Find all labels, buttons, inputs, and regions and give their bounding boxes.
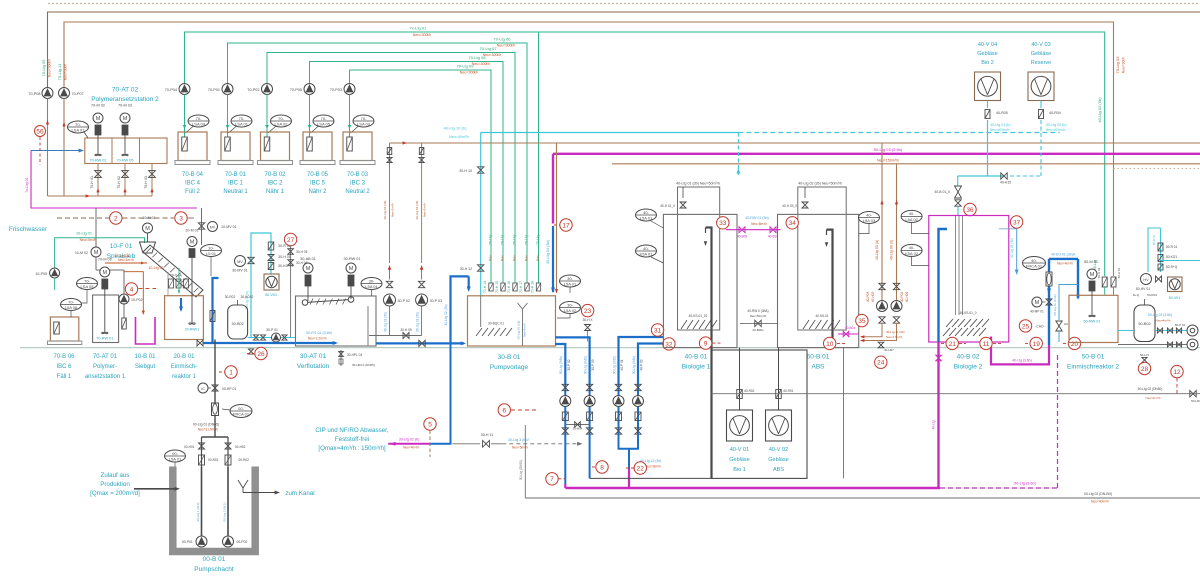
tank 50-B 01 Einmischreaktor 2 [1069,295,1118,342]
svg-text:Neu=30l/h: Neu=30l/h [1122,57,1126,73]
svg-text:FRCA 01: FRCA 01 [233,412,250,417]
svg-text:-CHO-: -CHO- [1035,325,1044,329]
drain valve and node 24 [878,342,884,348]
svg-text:[Qmax = 200m³/d]: [Qmax = 200m³/d] [90,490,140,497]
svg-text:50-Ltg 02 (3.6b): 50-Ltg 02 (3.6b) [1148,313,1172,317]
CIP distribution line gray [452,443,480,445]
svg-text:Neu: Neu [489,255,493,261]
influent line Zulauf [134,488,176,490]
svg-text:Gebläse: Gebläse [1031,51,1052,57]
svg-text:Pumpschacht: Pumpschacht [194,566,234,573]
svg-text:Neu=300l/h: Neu=300l/h [483,53,501,57]
orange wash line 1 [105,262,147,264]
instruments at 30-B 01 [560,275,581,287]
cyan dashed riser from 40-B 01 [737,133,739,176]
svg-text:Neu=400m³/h: Neu=400m³/h [990,128,1010,132]
air header to Biologie 2 [958,175,1004,177]
inner chamber hatch ABS [803,320,809,329]
svg-text:70-B 05: 70-B 05 [307,172,329,178]
svg-text:20-B 01: 20-B 01 [173,354,195,360]
frame line 70-Ltg upper [48,12,1200,88]
green cascade line 3 [267,53,515,284]
blue inlet arrow inside reactor [180,298,182,310]
svg-text:L5A 02: L5A 02 [905,217,918,222]
pump 70-P07 [59,88,70,99]
svg-text:12: 12 [1173,369,1181,376]
svg-text:Neu=300l/h: Neu=300l/h [413,33,431,37]
top frame dotted line [48,3,1200,5]
svg-text:70-H 02: 70-H 02 [117,176,121,189]
thin recirculation branch with valve stack [1059,285,1078,321]
cross connect between columns 1-2 [565,424,589,426]
submersible pump 00-P01 [196,536,207,547]
tank 30-B 01 Pumpvorlage [468,296,556,346]
svg-text:25: 25 [1022,323,1030,330]
svg-text:M: M [145,226,150,232]
svg-text:LSA 07: LSA 07 [72,128,86,133]
red arrows on ABS feed drops [880,200,883,204]
svg-text:30-P/L 01 (3.6b): 30-P/L 01 (3.6b) [306,331,332,335]
svg-text:Füll 2: Füll 2 [185,189,200,195]
pump column 40-P 02 [637,384,639,434]
instrument 70-LSA 04 [188,115,209,127]
pump 30-P 01 [272,333,281,342]
spargers inside Biologie 2 [955,216,957,315]
svg-text:40-R04: 40-R04 [1049,111,1061,115]
svg-text:50-B 01: 50-B 01 [1152,234,1156,245]
svg-text:40-Ltg: 40-Ltg [932,420,936,429]
node 56 [35,126,46,137]
downcomer air pipe ABS [827,230,833,348]
svg-text:70-: 70- [68,299,74,304]
svg-text:00-: 00- [238,406,244,411]
reactor outlet down to pit [214,340,216,404]
instrument 70-LSA 05 [77,278,98,290]
valve 30-H 12 [478,265,484,271]
air drop with control valves into Biologie 2 spargers [957,176,959,186]
node 12 with dashed drop [1171,365,1183,377]
tank 30-AT 01 Verflotation [296,296,377,346]
svg-text:Neu=9m³/h: Neu=9m³/h [523,323,527,337]
svg-text:00-HP 01: 00-HP 01 [222,387,236,391]
instrument 70-LSA 06 [61,299,82,311]
suction line into IBC [309,95,311,138]
screen support [167,272,169,296]
svg-text:Neu=300l/h: Neu=300l/h [497,44,515,48]
blower enclosure [712,350,808,478]
svg-text:7x-Ltg 01: 7x-Ltg 01 [25,177,29,193]
svg-text:70-P04: 70-P04 [165,88,177,92]
svg-text:40-Ltg (3.6b): 40-Ltg (3.6b) [1012,359,1031,363]
blue transfer Biologie2 to Einmischreaktor 2 [1049,258,1078,260]
collect header brown y=196 [48,195,153,197]
brown header y=143 [390,142,1200,144]
svg-text:70-Ltg 05: 70-Ltg 05 [41,59,46,77]
svg-text:Feststoff-frei: Feststoff-frei [335,436,369,443]
svg-text:M: M [1035,300,1040,306]
svg-text:40-B 01: 40-B 01 [685,354,708,361]
svg-text:40-H05: 40-H05 [871,292,875,303]
IBC tank 70-B 01 [221,132,250,161]
svg-text:10-M 01: 10-M 01 [142,216,155,220]
svg-text:40-B 02: 40-B 02 [957,354,980,361]
svg-text:30-KO 01: 30-KO 01 [278,264,293,268]
line pumps to collect header [47,99,49,197]
svg-text:40-R02: 40-R02 [744,389,755,393]
svg-text:70-P05: 70-P05 [290,88,302,92]
CIP magenta inlet line [388,443,430,445]
svg-text:reaktor 1: reaktor 1 [172,374,196,380]
svg-text:70-M 01: 70-M 01 [98,258,112,262]
svg-text:40-Ltg 03 (b): 40-Ltg 03 (b) [875,240,879,261]
svg-text:70-B 06: 70-B 06 [53,354,75,360]
svg-text:00-Ltg 02 (DN150): 00-Ltg 02 (DN150) [1084,492,1112,496]
bottom transfer line between chambers [740,322,778,324]
svg-text:10-P02: 10-P02 [131,298,143,302]
svg-text:Biologie 2: Biologie 2 [954,364,983,371]
svg-text:30-H X: 30-H X [583,318,594,322]
cyan line to flotation saturation [481,132,739,134]
svg-text:40-V 04: 40-V 04 [978,42,997,48]
svg-text:30-P 03: 30-P 03 [430,299,443,303]
feed header column 3 into Biologie 1 [619,337,664,384]
svg-text:30-Ltg 02 (b): 30-Ltg 02 (b) [399,438,420,442]
IBC tank 70-B 03 [343,132,372,161]
column 2 discharge to gray line [589,434,591,478]
riser manifold split [202,436,229,438]
svg-text:70-Ltg: 70-Ltg [525,235,529,245]
svg-text:30-Ltg 04 (3b): 30-Ltg 04 (3b) [383,201,387,220]
pump pit walls [173,467,255,552]
valve and motor 40-MP 01 [1046,299,1052,305]
svg-text:Neu=50m³/h: Neu=50m³/h [750,314,767,318]
svg-text:1: 1 [229,369,233,376]
suction line into IBC [266,95,268,138]
suction line into IBC [184,95,186,138]
svg-text:50-R 01: 50-R 01 [1166,245,1178,249]
svg-text:00-H01: 00-H01 [184,445,195,449]
IBC tank 70-B 05 [303,132,332,161]
instrument 10-L5 01 [201,245,222,257]
pressure vessel 30-B 02 [228,305,248,339]
svg-text:00-R02: 00-R02 [239,458,250,462]
pump column 30-P 02 [564,384,566,434]
valve HV 50-HV 01 [1141,274,1152,285]
fitting 30-R 01 [268,242,274,250]
svg-text:30-H 10: 30-H 10 [459,169,472,173]
svg-text:50-Ltg 02 (DN50): 50-Ltg 02 (DN50) [1138,387,1163,391]
IC controller circle [198,383,208,393]
pump column 40-P 01 [618,384,620,434]
svg-text:70-Ltg 11: 70-Ltg 11 [57,63,62,80]
svg-text:00-B 01: 00-B 01 [203,556,226,563]
svg-text:L5A 01: L5A 01 [169,457,182,462]
svg-text:00-H02: 00-H02 [235,445,246,449]
svg-text:Neu=300l/h: Neu=300l/h [472,62,490,66]
svg-text:M: M [306,266,311,272]
compressor 50-V 01 [1168,277,1183,292]
pump column 30-P 03 [589,384,591,434]
svg-text:70-B 04: 70-B 04 [182,172,204,178]
green cascade line 5 [350,70,492,283]
green Frischwasser branch to screen [55,238,145,268]
svg-text:30-P 02: 30-P 02 [398,299,411,303]
svg-text:30-H04: 30-H04 [573,427,583,431]
svg-text:Neu=1.5m³/h: Neu=1.5m³/h [886,335,903,339]
inner chamber ABS [798,187,846,330]
svg-text:Bio 1: Bio 1 [733,467,746,473]
svg-text:40-V 03: 40-V 03 [1031,42,1050,48]
svg-text:30-Ltg 11 (3b): 30-Ltg 11 (3b) [384,312,388,332]
svg-text:50-M 01: 50-M 01 [1084,260,1098,264]
svg-text:40-V 02: 40-V 02 [769,447,788,453]
air line from blower Bio 2 [987,101,989,109]
svg-text:10-M 02: 10-M 02 [75,251,88,255]
svg-text:Siebgut: Siebgut [135,364,156,370]
instrument 40-K5A 02 [901,244,922,256]
compressor 30-V 01 [264,274,279,290]
svg-text:M: M [96,116,101,122]
svg-text:70-H 01: 70-H 01 [90,176,94,189]
drain fitting and node 26 [248,349,253,354]
svg-text:50-B 01: 50-B 01 [1082,354,1105,361]
svg-text:40-H07: 40-H07 [884,348,894,352]
svg-text:28: 28 [1141,366,1149,373]
svg-text:FRCA 01: FRCA 01 [1026,264,1043,269]
svg-text:70-: 70- [361,116,367,121]
magenta dashed to sample point [940,487,1058,489]
svg-text:50-H 01: 50-H 01 [1117,267,1121,278]
svg-text:30-BQC 01: 30-BQC 01 [488,322,504,326]
suction line into IBC [349,95,351,138]
green cascade line 4 [310,62,504,284]
magenta distribution line y=208 [31,151,197,209]
svg-text:30-AB 01: 30-AB 01 [300,257,316,261]
node 23 and drain valve [581,304,593,316]
riser 1 valves [201,437,203,467]
svg-text:40-Ltg 05 (3b): 40-Ltg 05 (3b) [1010,238,1014,258]
svg-text:20-RW01: 20-RW01 [185,328,199,332]
svg-text:27: 27 [287,237,295,244]
svg-text:40-R05: 40-R05 [996,111,1008,115]
green dosing drop into reactor [178,268,180,292]
svg-text:40-H15: 40-H15 [1000,181,1011,185]
tank 40-B 01 Biologie 1 outer [663,214,737,347]
suction line into IBC [227,95,229,138]
boundary line bottom y=498 [525,497,1200,499]
svg-text:00-Ltg 1 (W.2): 00-Ltg 1 (W.2) [196,502,200,521]
svg-text:70-Ltg 07: 70-Ltg 07 [480,46,498,51]
svg-text:70-RW 02: 70-RW 02 [89,159,106,163]
svg-text:LSA 03: LSA 03 [357,122,371,127]
svg-text:Neu=400m³/h: Neu=400m³/h [1046,128,1066,132]
svg-text:70-AT 02: 70-AT 02 [112,87,139,94]
node 32 [663,338,675,350]
magenta return riser from Biologie 2 [937,342,939,488]
svg-text:Produktion: Produktion [100,481,130,488]
svg-text:50-H 02: 50-H 02 [1097,267,1101,278]
pump discharges into ABS [861,323,882,337]
svg-text:40-B10: 40-B10 [768,235,779,239]
tank ABS outer [778,214,859,347]
svg-text:11: 11 [983,341,990,348]
svg-text:50-R03: 50-R03 [1147,293,1157,297]
riser 2 valves [227,437,229,467]
vessel 50-B 02 [1134,305,1155,342]
svg-text:10-Ltg 01: 10-Ltg 01 [76,232,92,236]
magenta transfer line Bio1 to ABS [726,229,781,231]
svg-text:K5A 02: K5A 02 [905,251,919,256]
svg-text:70-Ltg 06: 70-Ltg 06 [494,37,512,42]
reactor circulation line blue [213,278,219,343]
svg-text:Neu=300l/h: Neu=300l/h [48,59,52,77]
ABS feed drop 2 [896,164,898,300]
svg-text:50-H 0: 50-H 0 [1140,353,1149,357]
svg-text:50-V01: 50-V01 [1169,296,1181,300]
svg-text:10: 10 [826,341,834,348]
valve 30-MV 01 [248,257,254,263]
svg-text:40-K5-01: 40-K5-01 [815,314,828,318]
CIP dashed line to pump columns [502,443,580,445]
IBC pump 70-P04 [179,84,190,95]
instrument 70-LSA 05 [313,115,334,127]
svg-text:30-Ltg (3.6b): 30-Ltg (3.6b) [612,356,616,374]
svg-text:70-P07: 70-P07 [72,92,84,96]
blue CIP tie-in from 30-B 01 main [430,343,450,443]
svg-text:2: 2 [114,215,118,222]
downcomer air pipe Bio 1 [706,228,712,479]
valve on main line [419,340,425,346]
instrument 40-L5A 01 [636,209,657,221]
svg-text:20-M 01: 20-M 01 [185,229,198,233]
svg-text:H0: H0 [1064,322,1068,326]
hatch marks inside tank [476,328,482,336]
magenta CIP main line thick [553,153,1200,155]
svg-text:Neu=40m³/h: Neu=40m³/h [449,135,469,139]
svg-text:IBC 5: IBC 5 [310,181,326,187]
svg-text:Neu=3m³/h: Neu=3m³/h [645,465,661,469]
main blue line reactor to flotation [203,342,336,344]
air line from blower Reserve dashed [1040,101,1042,109]
svg-text:50-B02: 50-B02 [1138,322,1150,326]
container 10-B 01 Siebgut [136,317,156,344]
instrument 40-L5A 02 [901,210,922,222]
dotted line right [1114,168,1200,170]
svg-text:30-V01: 30-V01 [265,293,277,297]
svg-text:70-Ltg: 70-Ltg [536,235,540,245]
svg-text:Zulauf aus: Zulauf aus [101,472,130,479]
svg-text:30-: 30- [567,276,573,281]
svg-text:Gebläse: Gebläse [729,457,750,463]
brown riser to 30-B 01 [556,143,558,291]
node 8 [596,461,608,473]
svg-text:M: M [123,116,128,122]
svg-text:40-Ltg 11 (3b): 40-Ltg 11 (3b) [886,330,905,334]
screen feed line [96,269,124,271]
cyan line to right edge [1161,260,1200,262]
svg-text:40-Ltg 01 (3b) Neu=50m³/h: 40-Ltg 01 (3b) Neu=50m³/h [676,182,719,186]
svg-text:L5A 03: L5A 03 [863,218,876,223]
svg-text:M: M [349,266,354,272]
svg-text:Verflotation: Verflotation [297,363,330,370]
svg-text:70-Ltg: 70-Ltg [501,235,505,245]
svg-text:IBC 2: IBC 2 [267,181,283,187]
valve 10-MV 01 with actuator [201,208,203,245]
svg-text:IBC 4: IBC 4 [185,181,201,187]
column 1 discharge to magenta return [564,434,566,484]
valve 30-H 01 [268,255,274,261]
svg-text:Neu=4m³/h: Neu=4m³/h [1146,396,1161,400]
dosing sensor cluster above reactor [169,279,174,288]
instrument 40-L5A 03 [859,212,880,224]
gray boundary vertical right of ABS [843,348,845,479]
svg-text:40-: 40- [909,245,915,250]
svg-text:ABS: ABS [773,467,784,473]
flotate discharge risers to header [389,143,391,263]
svg-text:30-HPL 04: 30-HPL 04 [347,353,362,357]
svg-text:34: 34 [789,220,797,227]
svg-text:30-Ltg 3 (b)V: 30-Ltg 3 (b)V [508,438,530,442]
svg-text:70-M 03: 70-M 03 [118,104,132,108]
svg-text:30-H 01: 30-H 01 [278,255,291,259]
tank 70-AT 01 Polymeransetzstation 1 [93,295,119,343]
IBC pump 70-P03 [344,84,355,95]
svg-text:Nähr 2: Nähr 2 [308,189,327,195]
svg-text:L5A 02: L5A 02 [564,308,577,313]
svg-text:30-Ltg 02 (3b): 30-Ltg 02 (3b) [444,304,448,325]
air saturation line cyan [251,233,271,337]
svg-text:30-: 30- [567,302,573,307]
pump 10-P05 [50,268,60,278]
inclined spiral screen body [143,245,203,297]
motor 10-M 02 [91,247,101,257]
valve on chamber top Bio 1 [682,187,684,198]
svg-text:70-Ltg 08: 70-Ltg 08 [469,55,487,60]
pit risers [201,467,203,536]
svg-text:30-H 11: 30-H 11 [481,433,494,437]
svg-text:Neu: Neu [501,255,505,261]
svg-text:40-Ltg 02 (5b): 40-Ltg 02 (5b) [1097,97,1102,123]
bottom row nodes [946,337,958,349]
svg-text:Neu=30l/h: Neu=30l/h [64,64,68,80]
flotation drain fittings [340,350,342,366]
svg-text:M: M [1090,272,1095,278]
blower 40-V 02 [766,410,792,441]
svg-text:30-R02: 30-R02 [225,295,236,299]
svg-text:10-Ltg 03: 10-Ltg 03 [148,266,163,270]
ABS feed drop 1 [881,143,883,300]
svg-text:40-P 01: 40-P 01 [620,359,624,370]
svg-text:26: 26 [257,351,265,358]
svg-text:40-B 01_0: 40-B 01_0 [934,190,950,194]
svg-text:70-: 70- [75,122,81,127]
svg-text:33: 33 [719,220,727,227]
svg-text:00-Ltg 2 (W.1): 00-Ltg 2 (W.1) [223,502,227,521]
node 17 [554,224,560,226]
svg-text:Neu=1m³/h: Neu=1m³/h [118,258,134,262]
cyan gas lines right [1148,228,1161,272]
svg-text:50-H03: 50-H03 [1191,399,1200,403]
svg-text:70-P02: 70-P02 [247,88,259,92]
svg-text:50-KO1: 50-KO1 [1166,255,1177,259]
svg-text:Polymeransetzstation 2: Polymeransetzstation 2 [91,96,159,103]
node 5 dashed drop [424,418,436,430]
svg-text:70-Ltg: 70-Ltg [489,235,493,245]
tank 70-B 06 IBC 6 [50,317,78,341]
svg-text:30-H 12: 30-H 12 [460,267,472,271]
svg-text:50-Ltg (3.6b): 50-Ltg (3.6b) [1014,482,1036,486]
flow meter on transfer line [1046,272,1052,286]
